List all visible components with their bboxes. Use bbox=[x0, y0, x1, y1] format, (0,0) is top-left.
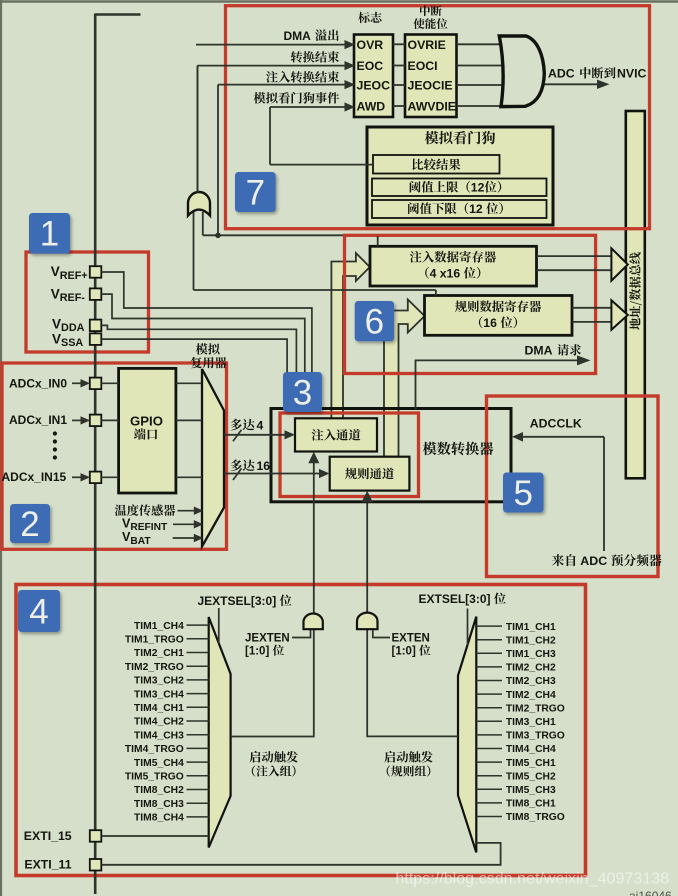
svg-text:2: 2 bbox=[20, 505, 39, 544]
svg-text:TIM8_CH1: TIM8_CH1 bbox=[506, 799, 556, 810]
svg-text:ADCx_IN1: ADCx_IN1 bbox=[9, 413, 67, 427]
svg-text:EXTSEL[3:0]: EXTSEL[3:0] bbox=[419, 592, 491, 606]
svg-text:TIM2_TRGO: TIM2_TRGO bbox=[506, 703, 565, 714]
svg-text:TIM1_CH1: TIM1_CH1 bbox=[506, 622, 556, 633]
svg-text:16: 16 bbox=[483, 316, 497, 330]
svg-text:TIM5_CH3: TIM5_CH3 bbox=[506, 785, 556, 796]
svg-text:4 x16: 4 x16 bbox=[430, 267, 461, 281]
svg-text:[1:0]: [1:0] bbox=[245, 646, 269, 658]
svg-text:TIM2_CH1: TIM2_CH1 bbox=[134, 648, 184, 659]
svg-text:ADC: ADC bbox=[548, 67, 575, 81]
svg-text:4: 4 bbox=[257, 418, 264, 432]
svg-text:DMA: DMA bbox=[284, 29, 312, 43]
svg-text:EXTI_15: EXTI_15 bbox=[24, 829, 72, 843]
svg-text:TIM8_TRGO: TIM8_TRGO bbox=[506, 812, 565, 823]
svg-text:DMA: DMA bbox=[525, 344, 553, 358]
svg-text:4: 4 bbox=[29, 592, 48, 631]
svg-text:EXTEN: EXTEN bbox=[392, 633, 430, 645]
svg-text:TIM5_CH4: TIM5_CH4 bbox=[134, 758, 184, 769]
svg-text:https://blog.csdn.net/weixin_4: https://blog.csdn.net/weixin_40973138 bbox=[395, 869, 669, 887]
svg-text:ADCx_IN0: ADCx_IN0 bbox=[9, 376, 67, 390]
svg-text:TIM3_CH1: TIM3_CH1 bbox=[506, 717, 556, 728]
svg-text:12: 12 bbox=[471, 181, 485, 195]
svg-text:ADCx_IN15: ADCx_IN15 bbox=[2, 470, 67, 484]
svg-text:TIM2_CH2: TIM2_CH2 bbox=[506, 663, 556, 674]
svg-text:12: 12 bbox=[469, 202, 483, 216]
svg-text:TIM1_CH2: TIM1_CH2 bbox=[506, 635, 556, 646]
svg-text:TIM4_CH2: TIM4_CH2 bbox=[134, 717, 184, 728]
svg-text:TIM1_CH3: TIM1_CH3 bbox=[506, 649, 556, 660]
svg-text:TIM1_CH4: TIM1_CH4 bbox=[134, 621, 184, 632]
svg-text:7: 7 bbox=[246, 173, 265, 212]
svg-text:TIM3_CH4: TIM3_CH4 bbox=[134, 689, 184, 700]
svg-text:3: 3 bbox=[293, 373, 312, 412]
svg-text:OVR: OVR bbox=[357, 38, 384, 52]
svg-text:TIM4_CH4: TIM4_CH4 bbox=[506, 744, 556, 755]
svg-text:TIM4_TRGO: TIM4_TRGO bbox=[125, 744, 184, 755]
svg-text:AWVDIE: AWVDIE bbox=[408, 100, 457, 114]
svg-text:TIM4_CH1: TIM4_CH1 bbox=[134, 703, 184, 714]
svg-text:JEXTSEL[3:0]: JEXTSEL[3:0] bbox=[198, 594, 277, 608]
svg-text:TIM8_CH2: TIM8_CH2 bbox=[134, 785, 184, 796]
svg-text:EOC: EOC bbox=[357, 59, 384, 73]
svg-text:TIM5_CH2: TIM5_CH2 bbox=[506, 771, 556, 782]
svg-text:OVRIE: OVRIE bbox=[408, 38, 446, 52]
svg-text:16: 16 bbox=[257, 459, 271, 473]
svg-text:TIM8_CH4: TIM8_CH4 bbox=[134, 813, 184, 824]
svg-text:[1:0]: [1:0] bbox=[392, 646, 416, 658]
svg-text:AWD: AWD bbox=[357, 100, 386, 114]
svg-text:TIM4_CH3: TIM4_CH3 bbox=[134, 730, 184, 741]
svg-text:TIM3_TRGO: TIM3_TRGO bbox=[506, 731, 565, 742]
svg-text:TIM3_CH2: TIM3_CH2 bbox=[134, 676, 184, 687]
svg-text:TIM2_TRGO: TIM2_TRGO bbox=[125, 662, 184, 673]
svg-text:TIM1_TRGO: TIM1_TRGO bbox=[125, 635, 184, 646]
svg-text:JEOC: JEOC bbox=[357, 79, 391, 93]
svg-text:TIM8_CH3: TIM8_CH3 bbox=[134, 799, 184, 810]
svg-text:JEOCIE: JEOCIE bbox=[408, 79, 453, 93]
svg-text:EXTI_11: EXTI_11 bbox=[24, 857, 71, 871]
svg-text:1: 1 bbox=[40, 215, 59, 254]
svg-text:NVIC: NVIC bbox=[617, 67, 646, 81]
svg-text:GPIO: GPIO bbox=[130, 414, 163, 429]
svg-text:ADC: ADC bbox=[580, 554, 607, 568]
svg-text:TIM5_TRGO: TIM5_TRGO bbox=[125, 772, 184, 783]
svg-text:ADCCLK: ADCCLK bbox=[530, 417, 582, 431]
svg-text:ai16046: ai16046 bbox=[629, 889, 672, 896]
svg-text:JEXTEN: JEXTEN bbox=[245, 633, 290, 645]
svg-text:TIM2_CH3: TIM2_CH3 bbox=[506, 676, 556, 687]
svg-text:TIM5_CH1: TIM5_CH1 bbox=[506, 758, 556, 769]
svg-text:5: 5 bbox=[513, 474, 532, 513]
svg-text:EOCI: EOCI bbox=[408, 59, 438, 73]
svg-text:6: 6 bbox=[365, 303, 384, 342]
svg-text:TIM2_CH4: TIM2_CH4 bbox=[506, 690, 556, 701]
